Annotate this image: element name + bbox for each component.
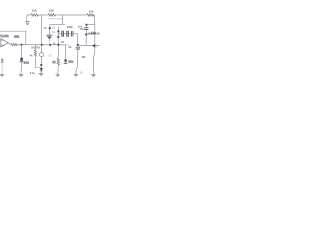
node E dot: [77, 44, 79, 46]
wire col77 mid: [76, 45, 78, 74]
svg-text:8R: 8R: [82, 55, 85, 59]
svg-text:10k: 10k: [49, 8, 54, 12]
resistor R1: [31, 14, 39, 16]
node dot col41: [40, 64, 42, 66]
node mid-branch dot on row: [49, 44, 51, 46]
wire drop x41.6: [41, 15, 43, 45]
capacitor C4b plates vertical pair3: [72, 31, 73, 37]
wire right ladder top y24.5: [85, 24, 94, 26]
wire col41 mid: [40, 57, 42, 68]
svg-text:TL061: TL061: [0, 34, 9, 38]
resistor R4 output: [11, 43, 18, 45]
wire h y33.6: [86, 32, 95, 34]
capacitor C1 polarized: [1, 59, 4, 62]
wire branch x48.8 upper: [49, 24, 51, 35]
wire to ground G3: [40, 71, 42, 73]
capacitor C2 plate: [20, 61, 24, 63]
capacitor C6 polarized: [64, 59, 67, 62]
resistor R2: [48, 14, 56, 16]
wire stub below mid diode: [48, 39, 50, 41]
capacitor C7 plates: [84, 28, 88, 30]
svg-text:10u: 10u: [24, 60, 29, 64]
node F dot: [85, 24, 87, 26]
capacitor C4 plates vertical pair2: [67, 31, 69, 37]
resistor R6 vertical: [57, 58, 59, 65]
node C2 dot: [57, 36, 59, 38]
wire branch x21.4 down: [20, 45, 23, 74]
svg-text:10k: 10k: [89, 9, 94, 13]
diode mid filled: [47, 36, 52, 39]
svg-text:C2: C2: [61, 40, 65, 44]
svg-text:4k7: 4k7: [96, 31, 100, 35]
capacitor C8 plates vertical: [92, 32, 94, 35]
capacitor C3 plates vertical pair1: [62, 31, 64, 37]
op-amp U1: [1, 39, 9, 47]
ground G3: [39, 73, 44, 76]
diode D2 filled left: [92, 44, 95, 48]
svg-text:10k: 10k: [14, 34, 19, 38]
wire mid horizontal y24.4: [50, 23, 65, 25]
wire branch x2.2: [1, 57, 3, 74]
svg-text:2N3565: 2N3565: [31, 46, 41, 50]
diode D1 filled: [40, 68, 43, 71]
lamp circle: [39, 53, 43, 57]
wire node to cap plates: [58, 33, 62, 35]
node C1 dot: [57, 30, 59, 32]
wire faint y18.8: [48, 18, 62, 20]
ground G5: [74, 74, 78, 77]
wire cluster left vertical: [57, 27, 59, 45]
ground mini under rail start: [25, 22, 30, 25]
wire rail start drop: [26, 15, 28, 22]
svg-text:10u: 10u: [68, 59, 73, 63]
svg-text:10n: 10n: [80, 27, 85, 31]
wire col86 lower: [85, 35, 87, 46]
svg-text:LS: LS: [49, 53, 53, 57]
svg-text:100k: 100k: [67, 25, 74, 29]
wire right column: [93, 15, 94, 74]
ground G6: [91, 74, 96, 77]
wire col41 upper segment: [41, 45, 43, 53]
wire faint to row: [48, 41, 50, 45]
resistor R3: [87, 14, 94, 16]
wire op-amp output: [8, 43, 11, 45]
ground G4: [56, 74, 60, 77]
wire drop x62.6: [62, 15, 64, 24]
wire col58 below row: [57, 45, 60, 74]
wire branch x35.4: [34, 45, 36, 68]
wire between caps: [63, 33, 66, 35]
wire output row left: [18, 44, 66, 46]
resistor R5 vertical: [34, 50, 36, 57]
ground G2: [19, 74, 23, 77]
capacitor C-mid plate: [46, 34, 52, 36]
node G dot: [85, 33, 87, 35]
wire col86 upper: [85, 25, 87, 34]
node D dot on row: [57, 44, 59, 46]
svg-text:10k: 10k: [32, 9, 37, 13]
wire top rail: [27, 14, 95, 16]
svg-text:0.1u: 0.1u: [30, 71, 36, 75]
wire row right segment: [78, 44, 100, 46]
wire feedback rail y31: [0, 31, 26, 44]
node H dot: [94, 32, 96, 34]
node B dot: [41, 44, 43, 46]
wire cluster right to corner: [73, 34, 78, 44]
capacitor C5 plates: [76, 47, 80, 49]
node dot on x48.8: [49, 27, 51, 29]
ground G1: [0, 74, 4, 77]
wire branch x65.6: [65, 45, 67, 64]
svg-text:X1: X1: [52, 30, 56, 34]
svg-text:C1: C1: [52, 25, 56, 29]
node A dot: [20, 44, 22, 46]
wire between caps 2: [68, 33, 71, 35]
capacitor C2 polarized top: [20, 57, 23, 61]
svg-text:1n: 1n: [43, 26, 47, 30]
svg-text:1k: 1k: [52, 60, 56, 64]
